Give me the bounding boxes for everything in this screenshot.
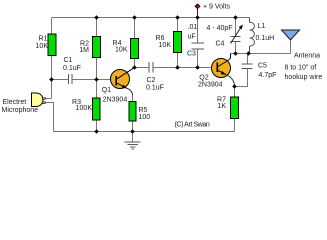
svg-text:Microphone: Microphone: [2, 107, 39, 114]
svg-text:10K: 10K: [159, 42, 172, 49]
transistor Q1: [111, 70, 130, 89]
svg-text:R6: R6: [156, 35, 165, 42]
node junction audio at R1: [49, 77, 54, 82]
wire R5 column: [132, 95, 134, 132]
node junction ground rail at R5/ground: [130, 129, 135, 134]
node junction tank at L1/C5: [246, 51, 251, 56]
resistor R6: [174, 32, 182, 53]
electret microphone: [32, 93, 44, 107]
wire bottom ground rail: [54, 131, 235, 133]
ground: [132, 132, 134, 143]
node junction top rail at C4: [233, 15, 238, 20]
svg-text:+ 9 Volts: + 9 Volts: [203, 3, 231, 10]
svg-text:R1: R1: [39, 36, 48, 43]
capacitor C2: [149, 62, 153, 73]
resistor R1: [48, 34, 56, 56]
svg-text:hookup wire: hookup wire: [285, 74, 323, 81]
wire 9V tap: [197, 7, 199, 18]
antenna: [282, 30, 300, 40]
wire mid node row C2 to Q2 base: [135, 67, 212, 69]
svg-text:C2: C2: [147, 77, 156, 84]
node junction top rail at R4: [132, 15, 137, 20]
svg-text:Antenna: Antenna: [294, 53, 320, 60]
svg-text:100: 100: [139, 114, 151, 121]
node junction tank at C4: [233, 51, 238, 56]
svg-text:0.1uH: 0.1uH: [256, 35, 275, 42]
wire R1 column: [46, 18, 52, 99]
svg-text:C4: C4: [216, 41, 225, 48]
node junction audio at R2/R3: [94, 77, 99, 82]
svg-text:100K: 100K: [76, 105, 93, 112]
wire R6 column: [177, 18, 179, 68]
svg-text:C3: C3: [187, 50, 196, 57]
inductor L1: [250, 18, 255, 54]
transistor Q2: [212, 59, 231, 78]
node junction top rail at R6: [175, 15, 180, 20]
node junction mid at C3: [195, 65, 200, 70]
node junction ground rail at R3: [94, 129, 99, 134]
svg-text:C1: C1: [64, 57, 73, 64]
svg-text:L1: L1: [258, 23, 266, 30]
capacitor C1: [69, 74, 73, 84]
node +9V red terminal: [195, 4, 200, 9]
capacitor C3: [192, 43, 205, 49]
wire R7 column: [234, 87, 236, 132]
svg-text:.01: .01: [188, 24, 198, 31]
wire C5 column and link to emitter node: [235, 54, 248, 87]
svg-text:4 - 40pF: 4 - 40pF: [207, 25, 233, 32]
svg-text:(C) Art Swan: (C) Art Swan: [175, 121, 210, 128]
svg-text:2N3904: 2N3904: [103, 96, 128, 103]
capacitor C5: [242, 64, 253, 69]
resistor R4: [131, 39, 139, 59]
svg-text:10K: 10K: [36, 43, 49, 50]
svg-text:1M: 1M: [79, 47, 89, 54]
node junction Q2 emitter: [232, 84, 237, 89]
node junction top rail at R2: [94, 15, 99, 20]
svg-text:Electret: Electret: [3, 99, 27, 106]
wire top +9V rail: [52, 17, 250, 19]
svg-text:Q1: Q1: [102, 87, 111, 94]
wire audio node row: [52, 79, 111, 81]
node junction mid at R6: [175, 65, 180, 70]
capacitor C4 (variable): [231, 37, 241, 42]
svg-text:C5: C5: [258, 63, 267, 70]
svg-text:0.1uF: 0.1uF: [63, 65, 81, 72]
wire C4 column: [235, 18, 237, 54]
resistor R2: [93, 37, 101, 58]
svg-text:uF: uF: [188, 34, 196, 41]
wire C3 column: [197, 18, 199, 68]
svg-text:8 to 10" of: 8 to 10" of: [285, 64, 317, 71]
svg-text:0.1uF: 0.1uF: [146, 84, 164, 91]
wire R2/R3 column: [96, 18, 98, 132]
wire tank node row to antenna: [231, 41, 291, 54]
resistor R3: [93, 98, 101, 120]
svg-text:2N3904: 2N3904: [198, 82, 223, 89]
svg-text:1K: 1K: [217, 103, 226, 110]
svg-text:10K: 10K: [115, 47, 128, 54]
wire mic lower lead to ground rail: [46, 103, 54, 132]
svg-text:4.7pF: 4.7pF: [259, 72, 277, 79]
resistor R7: [231, 97, 239, 119]
resistor R5: [129, 102, 136, 122]
wire R4 column: [134, 18, 136, 68]
svg-text:R5: R5: [139, 107, 148, 114]
node junction mid at Q1 collector: [132, 65, 137, 70]
node junction top rail at 9V tap: [195, 15, 200, 20]
